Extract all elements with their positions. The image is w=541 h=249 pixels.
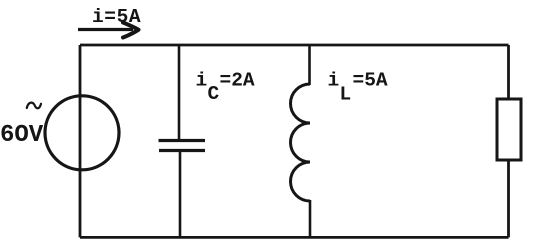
wire capacitor branch upper	[178, 45, 181, 141]
wire inductor branch lower	[309, 200, 312, 237]
svg-text:=2A: =2A	[220, 70, 255, 92]
wire bottom	[80, 236, 509, 239]
current arrow i	[78, 28, 133, 31]
wire inductor branch upper	[308, 45, 311, 85]
wire right lower	[507, 160, 510, 237]
svg-text:6OV: 6OV	[0, 122, 44, 149]
capacitor C1 top plate	[159, 139, 206, 142]
inductor L1	[291, 84, 311, 201]
svg-text:i=5A: i=5A	[92, 6, 141, 28]
wire left	[79, 45, 82, 237]
wire capacitor branch lower	[179, 151, 182, 238]
svg-text:C: C	[208, 83, 220, 105]
svg-text:i: i	[196, 70, 208, 92]
svg-text:L: L	[340, 84, 352, 106]
wire top	[80, 44, 509, 47]
source V1 tilde	[27, 103, 41, 109]
capacitor C1 bottom plate	[159, 149, 205, 152]
source V1 circle	[45, 96, 119, 170]
svg-text:i: i	[328, 70, 340, 92]
resistor R1	[497, 99, 521, 160]
wire right upper	[507, 45, 510, 99]
svg-text:=5A: =5A	[353, 70, 388, 92]
